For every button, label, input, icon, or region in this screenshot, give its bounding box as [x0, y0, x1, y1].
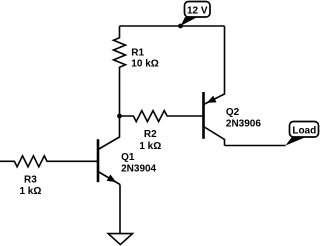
- svg-text:R2: R2: [144, 129, 157, 140]
- svg-text:R3: R3: [24, 175, 37, 186]
- svg-text:R1: R1: [131, 48, 144, 59]
- svg-text:10 kΩ: 10 kΩ: [131, 59, 158, 70]
- wire top rail: [120, 25, 225, 27]
- node collector junction dot: [117, 114, 122, 119]
- resistor R1: [114, 26, 159, 116]
- resistor R2: [120, 111, 204, 152]
- resistor R3: [0, 156, 98, 197]
- wire Q2 collector to load: [225, 145, 286, 147]
- svg-text:Q2: Q2: [226, 107, 240, 118]
- transistor Q1: [98, 116, 157, 185]
- transistor Q2: [204, 26, 262, 146]
- svg-text:1 kΩ: 1 kΩ: [19, 186, 41, 197]
- svg-text:Load: Load: [292, 125, 316, 136]
- node Load label: [286, 122, 319, 146]
- power label 12 V: [181, 2, 210, 26]
- svg-text:1 kΩ: 1 kΩ: [139, 141, 161, 152]
- node 12V junction dot: [178, 24, 183, 29]
- svg-text:Q1: Q1: [121, 152, 135, 163]
- svg-text:2N3906: 2N3906: [226, 119, 261, 130]
- svg-text:12 V: 12 V: [187, 5, 208, 16]
- wire Q1 emitter to ground: [119, 185, 121, 234]
- ground: [108, 234, 132, 245]
- svg-text:2N3904: 2N3904: [121, 164, 156, 175]
